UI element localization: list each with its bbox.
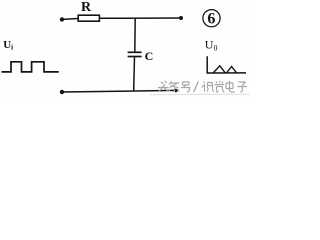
svg-text:6: 6 xyxy=(207,11,215,28)
svg-text:Ui: Ui xyxy=(3,39,13,52)
wire (input top lead to resistor) xyxy=(62,18,79,21)
node D (input bottom terminal dot) xyxy=(60,90,64,94)
watermark char 子 xyxy=(238,82,248,92)
node B (output top terminal dot) xyxy=(179,16,183,20)
watermark char 觉 xyxy=(215,81,225,93)
wire (capacitor top stem from top rail) xyxy=(134,19,136,53)
figure mark circled 6 xyxy=(203,10,220,27)
watermark char 视 xyxy=(202,82,215,92)
watermark char 号 xyxy=(181,82,191,92)
svg-text:C: C xyxy=(145,49,154,63)
capacitor C1 bottom plate xyxy=(128,56,142,58)
output waveform axis xyxy=(207,56,246,73)
wire (resistor to output node, top rail) xyxy=(99,17,181,19)
watermark char 电 xyxy=(226,81,235,92)
svg-text:U0: U0 xyxy=(205,37,218,52)
wire (capacitor bottom stem to bottom rail) xyxy=(133,57,136,91)
svg-text:R: R xyxy=(81,0,92,15)
watermark slash xyxy=(194,82,199,93)
watermark underline (scan artifact) xyxy=(150,93,250,95)
input square waveform xyxy=(2,62,59,72)
capacitor C1 top plate xyxy=(128,51,142,53)
wire (bottom rail) xyxy=(62,90,176,92)
resistor R1 body xyxy=(78,15,99,21)
node A (input top terminal dot) xyxy=(60,17,64,21)
node E (output bottom terminal dot) xyxy=(174,89,178,93)
watermark char 条 xyxy=(169,82,180,93)
watermark char 头 xyxy=(158,81,169,92)
output waveform triangles xyxy=(213,66,236,73)
